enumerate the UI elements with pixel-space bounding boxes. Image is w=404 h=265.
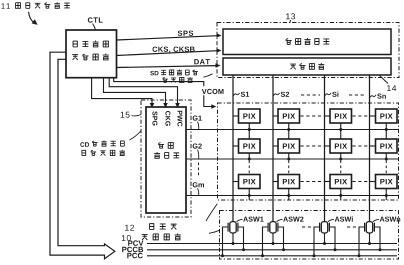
pixel PIX row2 col1 (239, 139, 261, 153)
label Gm (193, 182, 204, 187)
wire CKG (104, 78, 166, 104)
pixel PIX row3 col4 (376, 175, 398, 189)
label CTL (88, 17, 103, 22)
label 15 (121, 112, 130, 118)
arrow pointing to device (29, 12, 34, 23)
label 14 (387, 85, 396, 91)
pixel PIX row3 col1 (239, 175, 261, 189)
gate line G2 (186, 158, 399, 160)
ellipsis Si-Sn (349, 94, 366, 96)
tick CTL to box (93, 24, 96, 30)
label SD data-line driver text2 (163, 77, 168, 82)
label Sn (370, 95, 376, 98)
ellipsis G2-Gm (198, 163, 200, 177)
label SPG rotated (152, 111, 157, 125)
label 12 (125, 225, 134, 231)
gate line Gm (186, 195, 399, 197)
charging circuit dashed box (220, 211, 399, 260)
label 显示部 (149, 224, 154, 230)
tick 14 (380, 76, 389, 84)
pixel PIX row2 col2 (278, 139, 300, 153)
pixel PIX row2 col4 (376, 139, 398, 153)
gate shift register box (146, 107, 186, 213)
tick 15 (132, 115, 142, 116)
shift register text 移位寄存器 (286, 39, 292, 45)
label CD scan driver text1 (80, 142, 89, 147)
ellipsis row2 between PIX2-PIX3 (301, 145, 330, 147)
pixel PIX row3 col3 (330, 175, 352, 189)
wire SPS (117, 36, 218, 40)
switch ASWn (366, 222, 372, 233)
wire PCV (147, 243, 397, 245)
wire PWC (109, 78, 177, 104)
label CKG rotated (165, 111, 170, 126)
switch ASW1 (230, 222, 236, 233)
label G1 (193, 116, 202, 121)
source driver dashed box (217, 23, 399, 78)
control signal generator box (66, 30, 117, 78)
control box text 控制信号 (73, 41, 78, 47)
wire CKS CKSB (117, 51, 218, 56)
shift register box (223, 29, 391, 55)
gate driver dashed box 15 (141, 100, 191, 217)
label PWC rotated (177, 111, 182, 127)
label 10 (122, 235, 131, 241)
ellipsis row3 between PIX2-PIX3 (301, 181, 330, 183)
ellipsis ASWi-ASWn (347, 226, 358, 228)
pixel PIX row1 col3 (330, 109, 352, 123)
label CKS CKSB (153, 47, 195, 53)
ellipsis ASW2-ASWi (302, 226, 313, 228)
label SPS (178, 31, 194, 36)
tick CD label to box (130, 131, 141, 140)
leader 12 to display box (206, 204, 217, 221)
pixel PIX row3 col2 (278, 175, 300, 189)
source line Si (324, 75, 326, 222)
label CD scan driver text2 (82, 150, 86, 155)
control box text 发生电路 (72, 55, 78, 60)
title text 液晶显示装置 (16, 3, 21, 9)
label Si (325, 93, 331, 96)
label G2 (193, 144, 202, 149)
ellipsis row2 between PIX3-PIX4 (353, 145, 375, 147)
gate box text 寄存器 (154, 152, 160, 158)
hollow arrow from controller (50, 52, 115, 259)
wire DAT (117, 66, 217, 68)
source line S2 (272, 75, 274, 222)
switch ASWi (321, 222, 327, 233)
wire VCOM feed (114, 78, 212, 107)
sampling circuit box (223, 58, 391, 75)
label S1 (234, 93, 240, 96)
label 充电电路 (142, 235, 148, 240)
source line Sn (369, 75, 371, 222)
title label 11 (1, 3, 10, 9)
gate line G1 (186, 129, 399, 131)
ellipsis S2-Si (301, 94, 320, 96)
switch ASW2 (270, 222, 276, 233)
pixel PIX row1 col4 (376, 109, 398, 123)
label VCOM (202, 89, 224, 94)
label S2 (274, 93, 280, 96)
pixel PIX row2 col3 (330, 139, 352, 153)
display section dashed box (218, 103, 399, 200)
ellipsis row1 between PIX3-PIX4 (353, 115, 375, 117)
wire PCCB (147, 249, 397, 251)
tick SD label to box (204, 74, 213, 77)
label SD data-line driver text1 (150, 71, 158, 76)
sampling circuit text 采样电路 (290, 64, 296, 69)
source line S1 (232, 75, 234, 222)
wire PCC (147, 255, 397, 257)
ellipsis row1 between PIX2-PIX3 (301, 115, 330, 117)
ellipsis row3 between PIX3-PIX4 (353, 181, 375, 183)
tick 13 (289, 20, 292, 23)
pixel PIX row1 col1 (239, 109, 261, 123)
leader 10 to charging box (209, 230, 219, 233)
gate box text 移位 (158, 143, 164, 149)
wire SPG (92, 78, 152, 104)
pixel PIX row1 col2 (278, 109, 300, 123)
label 13 (286, 13, 295, 19)
label DAT (194, 59, 210, 64)
